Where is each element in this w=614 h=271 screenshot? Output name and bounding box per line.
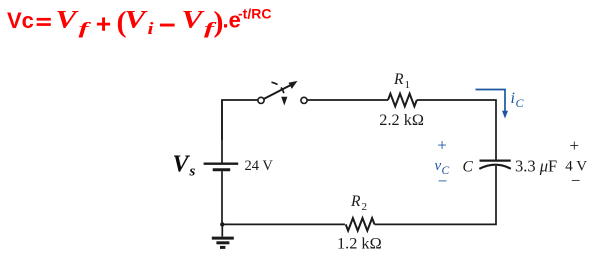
- svg-text:-t/RC: -t/RC: [238, 6, 271, 22]
- svg-text:V: V: [173, 152, 191, 178]
- switch closing motion dashed arrow: [272, 82, 288, 105]
- ground symbol: [212, 224, 234, 247]
- battery Vs plates: [204, 164, 239, 170]
- formula Vc = Vf + (Vi − Vf).e^-t/RC: [7, 6, 271, 39]
- svg-text:1.2 kΩ: 1.2 kΩ: [337, 233, 382, 252]
- label R2: [350, 193, 367, 213]
- junction node dot: [220, 222, 224, 226]
- label iC (blue): [511, 90, 525, 110]
- svg-text:C: C: [463, 159, 474, 176]
- svg-text:V: V: [182, 7, 206, 34]
- label R1 value 2.2 kΩ: [379, 110, 424, 129]
- svg-text:f: f: [79, 19, 93, 38]
- capacitor C plates: [479, 161, 511, 169]
- svg-text:i: i: [148, 19, 154, 38]
- label +4V− (black): [565, 136, 587, 190]
- svg-text:Vc: Vc: [7, 8, 34, 33]
- svg-text:C: C: [516, 96, 525, 110]
- label +vC− polarity (blue): [435, 135, 450, 190]
- wire left side top: corner to battery: [221, 100, 223, 163]
- svg-text:1: 1: [405, 79, 411, 91]
- svg-text:+: +: [570, 136, 580, 155]
- wire right side: capacitor to bottom-right corner to R2: [375, 166, 497, 225]
- label capacitor value 3.3 μF: [515, 157, 557, 176]
- svg-text:3.3 μF: 3.3 μF: [515, 157, 557, 176]
- current arrow iC (blue): [476, 90, 509, 119]
- wire top-left: corner to switch left terminal: [222, 100, 258, 140]
- svg-text:s: s: [189, 164, 196, 180]
- svg-text:V: V: [125, 7, 149, 34]
- svg-text:V: V: [56, 7, 80, 34]
- svg-text:R: R: [350, 193, 361, 210]
- svg-text:R: R: [393, 71, 404, 88]
- resistor R1 zigzag: [388, 94, 417, 107]
- switch left terminal circle: [258, 97, 264, 103]
- svg-text:+: +: [437, 135, 447, 154]
- wire R1 to top-right corner, down to capacitor: [417, 100, 496, 160]
- label R1: [393, 71, 410, 91]
- switch blade with arrowhead: [264, 81, 298, 99]
- switch right terminal circle: [301, 97, 307, 103]
- wire switch right terminal to R1: [307, 99, 388, 101]
- svg-text:i: i: [511, 90, 515, 107]
- label battery value 24 V: [245, 158, 274, 174]
- wire R2 to junction node: [222, 223, 345, 225]
- svg-text:−: −: [571, 171, 581, 190]
- label C: [463, 159, 474, 176]
- resistor R2 zigzag: [346, 218, 375, 231]
- label R2 value 1.2 kΩ: [337, 233, 382, 252]
- svg-text:2: 2: [362, 201, 368, 213]
- svg-text:24 V: 24 V: [245, 158, 274, 174]
- svg-text:−: −: [438, 171, 448, 190]
- svg-text:2.2 kΩ: 2.2 kΩ: [379, 110, 424, 129]
- wire left side bottom: battery to junction: [221, 171, 223, 224]
- label Vs (bold italic): [173, 152, 196, 180]
